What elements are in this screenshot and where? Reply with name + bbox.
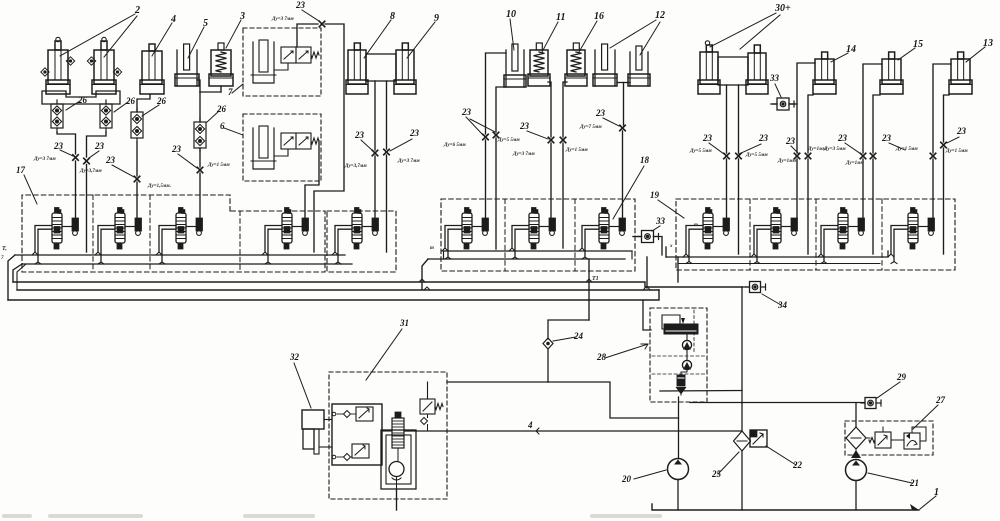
label 23 <box>354 130 373 151</box>
label 1 <box>920 487 939 509</box>
label 26d <box>207 104 227 122</box>
svg-text:23: 23 <box>409 128 420 138</box>
wire to station7 seat <box>550 143 552 218</box>
svg-text:23: 23 <box>785 136 796 146</box>
svg-text:11: 11 <box>556 12 565 23</box>
wire box6 to station4 seat <box>305 141 319 218</box>
wire lock26b down <box>87 132 107 157</box>
value label <box>689 149 712 154</box>
svg-text:26: 26 <box>156 96 167 106</box>
label 8 <box>364 11 395 58</box>
value label Du=3 7mm <box>33 157 56 162</box>
label 23 <box>837 133 861 154</box>
svg-text:23: 23 <box>105 155 116 165</box>
svg-text:17: 17 <box>16 165 26 175</box>
left bus end hooks <box>8 255 26 300</box>
label 23 <box>53 141 73 156</box>
crossbeam of group 30 <box>718 57 748 85</box>
svg-text:1: 1 <box>934 487 939 498</box>
valve station 8 (middle group) <box>579 208 626 260</box>
value label <box>397 159 420 164</box>
cylinder 14 <box>813 52 836 94</box>
svg-text:Ду=1 5мм: Ду=1 5мм <box>207 163 230 168</box>
label 5 <box>188 18 208 58</box>
svg-text:24: 24 <box>573 331 584 341</box>
dashed box 18 (middle valve block) <box>441 199 635 271</box>
dashed box 19 (right valve block) <box>676 199 955 270</box>
valve station 12 (right group) <box>888 208 935 264</box>
throttle 23 st8 seat <box>620 125 625 130</box>
cylinder pair 2 (hydraulic cylinders) <box>41 37 122 94</box>
wire crossbar drop left <box>374 81 376 150</box>
value label <box>512 152 535 157</box>
cylinder 3 <box>209 43 233 86</box>
port valve 33b near box 19 <box>633 231 662 256</box>
label 33b <box>652 216 666 231</box>
wire beam drop left <box>726 85 728 153</box>
svg-text:33: 33 <box>769 73 780 83</box>
label 6 <box>220 121 243 135</box>
bus line P right group <box>678 263 880 265</box>
wire cyl13 bottom drop <box>944 95 950 142</box>
throttle 23 <box>941 142 946 147</box>
pilot check valve 26d <box>194 118 206 152</box>
svg-text:23: 23 <box>758 133 769 143</box>
svg-text:23: 23 <box>53 141 64 151</box>
svg-text:Ду=3,7мм: Ду=3,7мм <box>79 169 102 174</box>
svg-text:Ду=3 7мм: Ду=3 7мм <box>33 157 56 162</box>
label 30+ <box>710 3 791 49</box>
right bus left verticals <box>647 247 678 288</box>
value label <box>147 184 171 189</box>
wire to station6 seat <box>485 140 487 218</box>
svg-text:Ду=3,7мм: Ду=3,7мм <box>344 164 367 169</box>
bar joining pair 12 <box>617 82 630 84</box>
svg-text:Ду=1 5мм: Ду=1 5мм <box>565 148 588 153</box>
throttle 23 <box>736 153 741 158</box>
svg-text:Т1: Т1 <box>592 276 599 282</box>
svg-text:25: 25 <box>711 469 722 479</box>
svg-text:Т,: Т, <box>2 246 7 252</box>
label 23 <box>947 126 967 143</box>
svg-text:23: 23 <box>354 130 365 140</box>
port valve 34 on line <box>746 282 766 293</box>
svg-text:18: 18 <box>640 155 650 165</box>
valve station 10 (right group) <box>751 208 798 264</box>
label 4 on line <box>527 420 544 434</box>
bus line P middle group <box>428 258 625 260</box>
wire pump20 to tank <box>677 480 679 511</box>
check valve in box 28 (upper) <box>682 334 691 350</box>
wire cyl10 top-left <box>486 53 507 134</box>
filter 25 (diamond) <box>734 431 751 451</box>
label t mid <box>430 246 434 251</box>
svg-text:т: т <box>694 223 698 228</box>
dashed box 27 <box>845 421 933 455</box>
wire cyl3 down <box>220 86 222 92</box>
main line 2 (long) <box>17 289 659 291</box>
svg-text:23: 23 <box>837 133 848 143</box>
wire drop to bus st11 <box>872 159 874 254</box>
pilot loop in box 28 <box>662 315 680 329</box>
label t right <box>669 223 698 249</box>
svg-text:10: 10 <box>506 9 516 20</box>
throttle 23 on line st1 <box>73 155 78 160</box>
label 13 <box>966 38 993 62</box>
value label <box>807 147 827 152</box>
supply branch line left to box31 <box>447 381 548 383</box>
label 19 <box>650 190 684 218</box>
svg-text:Ду=5 5мм: Ду=5 5мм <box>497 138 520 143</box>
label 22 <box>766 446 803 470</box>
svg-text:Ду=3 7мм: Ду=3 7мм <box>512 152 535 157</box>
wire valve7 to cylinder7 <box>274 63 288 70</box>
wire 742 down through filter 25 <box>741 403 743 431</box>
throttle 23 st9 seat <box>724 153 729 158</box>
wire lock26c down <box>136 142 138 176</box>
svg-text:Ду=1 5мм: Ду=1 5мм <box>895 147 918 152</box>
label T1 <box>592 276 599 282</box>
svg-text:Ду=3 7мм: Ду=3 7мм <box>271 17 294 22</box>
throttle 23 st7 seat <box>548 137 553 142</box>
cylinder 12 left <box>593 44 617 86</box>
label 11 <box>542 12 565 52</box>
label 23 <box>595 108 619 126</box>
label 7 <box>228 84 243 97</box>
scan artifact text remnants <box>2 514 662 518</box>
wire check24 down to junction <box>547 349 549 382</box>
label 16 <box>579 11 604 52</box>
value label <box>823 147 846 152</box>
svg-text:7: 7 <box>1 256 4 261</box>
svg-text:26: 26 <box>77 95 88 105</box>
svg-text:31: 31 <box>399 318 409 328</box>
valve station 2 (left group) <box>95 208 142 265</box>
wire drop to bus st7 <box>562 143 564 248</box>
label 23 <box>785 136 799 154</box>
svg-text:Ду=5 5мм: Ду=5 5мм <box>745 153 768 158</box>
dashed box 28 <box>650 308 707 402</box>
wire crossbar drop right <box>386 81 388 149</box>
hydraulic line 4 <box>404 430 741 432</box>
relief valve in box 27 <box>869 432 891 448</box>
wire to station11 seat <box>862 159 864 218</box>
wire drop to bus st6 <box>495 138 497 249</box>
label 23 <box>519 121 548 139</box>
throttle 23 st2 <box>134 176 139 181</box>
check valve in box 27 <box>904 433 920 449</box>
cylinder 12 right <box>628 46 650 86</box>
main line 3 (long) <box>8 290 659 300</box>
value label <box>443 143 466 148</box>
cylinder 10 <box>504 44 526 87</box>
bus line T left group <box>15 254 345 256</box>
label 23 <box>171 144 197 168</box>
svg-text:26: 26 <box>125 96 136 106</box>
throttle 23 st12 seat <box>930 153 935 158</box>
value label <box>207 163 230 168</box>
svg-text:23: 23 <box>881 133 892 143</box>
label 4 <box>152 14 176 56</box>
svg-text:32: 32 <box>289 352 300 362</box>
wire to station8 seat <box>622 131 624 218</box>
label 29 <box>877 372 907 398</box>
svg-text:19: 19 <box>650 190 660 200</box>
svg-text:4: 4 <box>170 14 176 25</box>
label 23 <box>390 128 420 151</box>
valve station 4 (left group) <box>262 208 309 265</box>
label 18 <box>613 155 650 219</box>
pilot-operated check valve 26b <box>100 100 112 132</box>
tank return line 1 <box>652 504 919 510</box>
wires in box 27 <box>856 424 926 441</box>
filter element in box 28 <box>676 375 687 395</box>
svg-text:Ду=1мм: Ду=1мм <box>777 159 797 164</box>
cartridge valve in box 31 <box>392 412 404 448</box>
mid bus left verticals <box>422 251 444 290</box>
port valve 29 <box>861 398 881 409</box>
throttle 23 st10 seat <box>794 153 799 158</box>
wire to station10 seat <box>796 159 798 218</box>
valve 22 <box>750 430 767 447</box>
wire drop to bus st5 <box>386 155 388 252</box>
main return line T1 (long) <box>13 282 742 287</box>
wire to station12 seat <box>932 159 934 218</box>
throttle 23 st6 seat <box>483 134 488 139</box>
wire throttle to station3 seat <box>199 173 201 218</box>
valve station 6 (middle group) <box>442 208 489 260</box>
svg-text:Ду=1мм: Ду=1мм <box>845 161 865 166</box>
valve station 11 (right group) <box>818 208 865 264</box>
wire pump31 to tank <box>396 489 398 510</box>
pump unit in box 31 <box>381 430 416 489</box>
wires inside box 28 <box>681 370 687 375</box>
label 9 <box>407 13 439 58</box>
cylinder 15 <box>880 52 903 94</box>
label 12 with leaders <box>610 10 665 55</box>
dashed enclosure box 6 <box>243 114 321 181</box>
valve station 9 (right group) <box>683 208 730 264</box>
label 23 <box>105 155 134 177</box>
label 17 <box>16 165 37 204</box>
cylinder 13 <box>949 52 972 94</box>
port valve 33 (top) <box>771 98 794 110</box>
supply stepped line to pump 20 <box>548 382 679 418</box>
valve station 5 (left group) <box>332 208 379 265</box>
wire drop to bus (st2) <box>86 165 88 253</box>
value label <box>945 149 968 154</box>
wire throttle to station5 seat <box>374 156 376 218</box>
svg-text:23: 23 <box>295 0 306 10</box>
label 23 <box>881 133 905 150</box>
cylinder 9 <box>394 43 416 94</box>
check/throttle 24 (diamond) <box>543 338 553 349</box>
solenoid valve in box 28 <box>664 318 698 334</box>
wire drop to bus st12 <box>943 148 945 254</box>
control valve block in box 31 <box>332 404 382 465</box>
pilot-operated check valve 26a <box>51 100 63 132</box>
label 15 <box>898 39 923 60</box>
wire junction down from line T1 <box>741 287 743 403</box>
wire cyl16 left drop <box>563 82 567 137</box>
label 24 <box>553 331 584 341</box>
label T at left edge <box>1 246 7 261</box>
wire beam drop right <box>738 85 740 153</box>
valve station 3 (left group) <box>156 208 203 265</box>
junction 33 stub <box>789 103 797 105</box>
value label Du=3 7mm <box>79 169 102 174</box>
label 31 <box>366 318 409 380</box>
wire box28 bottom manifold <box>660 391 742 396</box>
junction kinks on long lines <box>419 279 650 290</box>
wire lock26d down <box>199 148 201 167</box>
throttle 23 <box>560 137 565 142</box>
throttle 23 <box>493 132 498 137</box>
wire cyl15 bottom drop <box>873 95 880 153</box>
bus line T right group <box>666 251 888 257</box>
pump 21 <box>846 460 867 481</box>
cylinder 30 left <box>698 45 720 94</box>
svg-text:33: 33 <box>655 216 666 226</box>
dashed box around station 5 <box>327 211 396 272</box>
bus line T middle group <box>444 250 633 252</box>
yoke manifold under cylinders 2 <box>42 91 120 104</box>
throttle 23 on line st2drop <box>84 158 89 163</box>
arrowhead on tank line <box>910 504 919 510</box>
valve inside box 7 <box>281 47 319 63</box>
dashed box 31 <box>329 372 447 499</box>
clevis on rod 30L <box>705 41 709 45</box>
svg-text:23: 23 <box>595 108 606 118</box>
value label <box>777 159 797 164</box>
cylinder 4 <box>140 44 164 94</box>
cylinder 30 right <box>746 45 768 94</box>
svg-text:12: 12 <box>655 10 665 21</box>
wire down to check 24 <box>548 320 589 339</box>
wire cyl15 top-left <box>863 64 882 153</box>
label 14 <box>831 44 856 62</box>
wire throttle to station1 seat <box>75 161 77 218</box>
wire 25 to tank line <box>741 451 743 510</box>
filter 27a (diamond) <box>846 427 866 449</box>
label 21 <box>868 473 919 488</box>
svg-text:30+: 30+ <box>774 3 791 14</box>
label 34 <box>762 294 788 310</box>
throttle 23 on box7 line <box>319 21 324 26</box>
svg-text:23: 23 <box>702 133 713 143</box>
label 23 <box>739 133 769 154</box>
svg-text:т: т <box>430 246 434 251</box>
value label <box>745 153 768 158</box>
wire throttle to station2 seat <box>136 182 138 218</box>
svg-text:Ду=7 5мм: Ду=7 5мм <box>579 125 602 130</box>
wire throttle to drop <box>314 24 344 252</box>
cylinder 8 <box>346 43 368 94</box>
label 27 <box>913 395 946 429</box>
wire pair12 drop <box>623 83 625 126</box>
throttle 23 right <box>384 149 389 154</box>
pilot check valve 26c <box>131 108 143 142</box>
wire cyl14 top-left <box>797 63 815 153</box>
wire drop to bus st9 <box>738 159 740 254</box>
suction strainer arrow pump 21 <box>851 449 861 458</box>
wire box28 to pump 20 <box>678 397 680 458</box>
value label <box>565 148 588 153</box>
wire box7 exit up <box>297 24 318 47</box>
wire cyl10 bottom drop <box>496 87 504 132</box>
svg-text:22: 22 <box>792 460 803 470</box>
value label <box>497 138 520 143</box>
dashed enclosure box 7 <box>243 28 321 96</box>
svg-text:16: 16 <box>594 11 604 22</box>
svg-text:23: 23 <box>461 107 472 117</box>
value label <box>895 147 918 152</box>
label 25 <box>711 452 739 479</box>
wire cyl11 drop <box>548 82 551 137</box>
svg-text:29: 29 <box>896 372 907 382</box>
bus line P left group <box>22 263 352 265</box>
svg-text:Ду=5 5мм: Ду=5 5мм <box>689 149 712 154</box>
label 23 <box>702 133 724 154</box>
wire into lock26d <box>199 92 201 122</box>
wire valve6 to cylinder6 <box>274 149 288 156</box>
cylinder 11 (spring) <box>528 43 550 86</box>
label 10 <box>506 9 516 50</box>
svg-text:7: 7 <box>228 87 233 97</box>
dashed box 17 (left valve block) <box>22 195 325 272</box>
svg-text:23: 23 <box>519 121 530 131</box>
value label <box>344 164 367 169</box>
throttle 23 st3 <box>197 167 202 172</box>
valve station 7 (middle group) <box>509 208 556 260</box>
wire pump21 to tank <box>855 481 857 511</box>
svg-text:27: 27 <box>935 395 946 405</box>
label 32 <box>289 352 311 408</box>
svg-text:х: х <box>669 244 673 249</box>
cylinder 5 <box>175 44 199 86</box>
relief valve in box 31 <box>420 399 443 425</box>
svg-text:23: 23 <box>94 141 105 151</box>
cylinder 16 (spring) <box>565 43 587 86</box>
label 20 <box>621 470 666 484</box>
label 26 (left) <box>66 95 88 110</box>
pump 20 <box>668 459 689 480</box>
svg-text:20: 20 <box>621 474 632 484</box>
wire to port 34 <box>742 286 750 288</box>
wires in box 31 <box>319 382 428 489</box>
throttle 23 <box>805 153 810 158</box>
label 26 (right) <box>114 96 136 112</box>
label 2 with leaders <box>60 5 140 57</box>
label 33 <box>769 73 781 97</box>
cylinder 32 (plunger) <box>302 410 324 454</box>
throttle 23 st5 seat <box>372 150 377 155</box>
label 28 <box>596 344 648 362</box>
cylinder inside box 7 <box>251 40 276 83</box>
wire L3 to box 28 <box>643 300 651 330</box>
crossbar between 8 and 9 <box>366 54 396 81</box>
svg-text:4: 4 <box>527 420 533 430</box>
mid bus right verticals <box>589 251 632 320</box>
label 23 <box>295 0 319 21</box>
svg-text:Ду=3 5мм: Ду=3 5мм <box>823 147 846 152</box>
label 3 <box>226 11 245 48</box>
wire to station9 seat <box>726 159 728 218</box>
svg-text:Ду=3 7мм: Ду=3 7мм <box>397 159 420 164</box>
cylinder inside box 6 <box>251 126 276 169</box>
label 23 <box>89 141 105 158</box>
svg-text:34: 34 <box>777 300 788 310</box>
